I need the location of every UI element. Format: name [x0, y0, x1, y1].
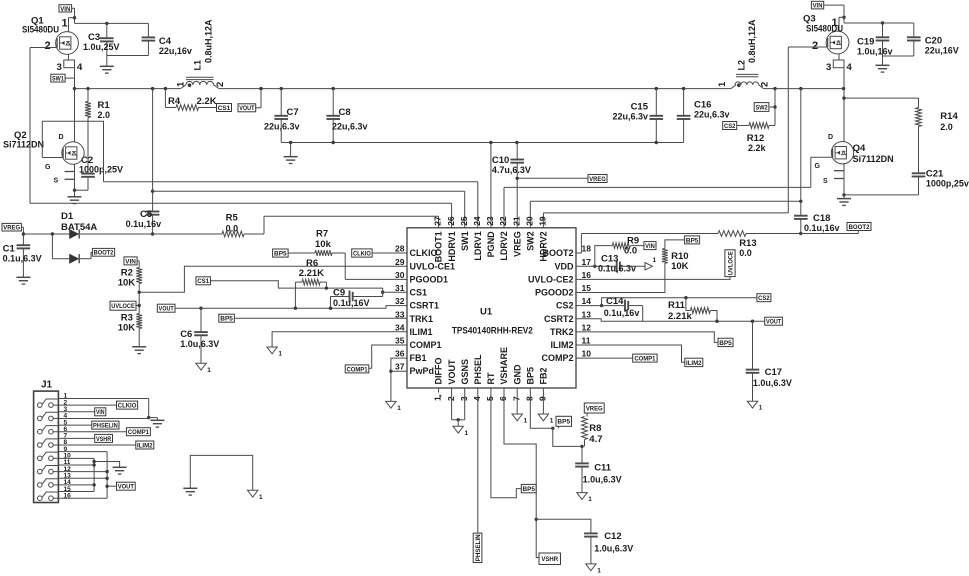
svg-text:26: 26: [446, 216, 456, 226]
svg-text:PHSELIN: PHSELIN: [93, 423, 118, 430]
svg-text:22: 22: [498, 216, 508, 226]
svg-text:0.8uH,12A: 0.8uH,12A: [747, 19, 757, 63]
svg-text:1: 1: [588, 496, 592, 503]
svg-text:GSNS: GSNS: [460, 359, 470, 385]
svg-text:SW1: SW1: [460, 231, 470, 251]
svg-text:R7: R7: [316, 229, 328, 240]
svg-text:4: 4: [847, 62, 853, 73]
svg-text:UVLOCE: UVLOCE: [727, 251, 734, 275]
svg-text:1: 1: [832, 17, 838, 29]
svg-text:12: 12: [582, 322, 592, 332]
svg-text:BOOT2: BOOT2: [848, 224, 869, 231]
svg-text:ILIM1: ILIM1: [410, 327, 433, 337]
svg-text:CS2: CS2: [556, 301, 574, 311]
svg-text:20: 20: [525, 216, 535, 226]
svg-text:VREG: VREG: [3, 225, 20, 232]
svg-text:3: 3: [459, 396, 469, 401]
svg-text:35: 35: [395, 336, 405, 346]
svg-text:UVLO-CE1: UVLO-CE1: [410, 261, 456, 271]
svg-text:22u,16V: 22u,16V: [925, 46, 959, 56]
svg-text:16: 16: [582, 270, 592, 280]
svg-text:22u,6.3v: 22u,6.3v: [264, 122, 300, 132]
svg-text:32: 32: [395, 296, 405, 306]
svg-text:1: 1: [176, 81, 187, 87]
svg-text:22u,16v: 22u,16v: [159, 46, 192, 56]
svg-text:0.0: 0.0: [739, 248, 752, 258]
svg-text:BOOT2: BOOT2: [94, 250, 114, 257]
svg-text:2.0: 2.0: [940, 122, 953, 132]
svg-text:PGOOD1: PGOOD1: [410, 274, 449, 284]
svg-text:1.0u,6.3V: 1.0u,6.3V: [180, 339, 219, 349]
svg-text:0.1u,6.3v: 0.1u,6.3v: [598, 264, 636, 274]
svg-text:BOOT1: BOOT1: [434, 231, 444, 262]
svg-text:9: 9: [538, 396, 548, 401]
svg-text:21: 21: [511, 216, 521, 226]
svg-text:L2: L2: [737, 60, 747, 71]
svg-text:VSHARE: VSHARE: [499, 347, 509, 385]
svg-text:28: 28: [395, 244, 405, 254]
svg-text:SI5480DU: SI5480DU: [22, 25, 59, 35]
svg-text:10: 10: [582, 349, 592, 359]
svg-text:2: 2: [760, 82, 771, 87]
svg-text:1.0u,6.3V: 1.0u,6.3V: [753, 378, 792, 388]
svg-text:1.0u,25V: 1.0u,25V: [83, 42, 120, 52]
svg-text:GND: GND: [512, 364, 522, 385]
svg-text:15: 15: [582, 283, 592, 293]
svg-text:Si7112DN: Si7112DN: [3, 140, 44, 150]
svg-text:4.7: 4.7: [589, 434, 602, 445]
svg-text:2.21k: 2.21k: [668, 311, 692, 322]
svg-text:BP5: BP5: [719, 340, 732, 347]
svg-text:ILIM2: ILIM2: [550, 340, 573, 350]
svg-text:1: 1: [397, 405, 401, 412]
svg-text:R5: R5: [226, 213, 239, 224]
svg-text:0.1u,16V: 0.1u,16V: [333, 298, 370, 308]
svg-text:RT: RT: [486, 372, 496, 384]
svg-text:7: 7: [511, 396, 521, 401]
svg-text:0.1u,6.3V: 0.1u,6.3V: [3, 254, 42, 264]
svg-text:0.0: 0.0: [226, 224, 239, 234]
svg-text:CSRT1: CSRT1: [410, 301, 440, 311]
svg-text:FB2: FB2: [539, 367, 549, 384]
svg-text:C14: C14: [606, 296, 624, 307]
svg-text:UVLOCE: UVLOCE: [111, 303, 135, 310]
svg-text:1: 1: [259, 494, 263, 501]
svg-text:C9: C9: [333, 288, 345, 299]
svg-text:CS1: CS1: [218, 105, 231, 112]
svg-text:1.0u,16v: 1.0u,16v: [857, 47, 893, 57]
svg-text:R14: R14: [940, 111, 958, 122]
svg-text:BP5: BP5: [220, 316, 233, 323]
svg-text:19: 19: [538, 216, 548, 226]
svg-text:0.1u,16v: 0.1u,16v: [604, 308, 640, 318]
svg-text:Q4: Q4: [853, 143, 866, 154]
svg-text:COMP1: COMP1: [634, 356, 655, 363]
svg-text:22u,6.3v: 22u,6.3v: [332, 122, 368, 132]
svg-text:CLKIO: CLKIO: [353, 250, 371, 257]
svg-text:D1: D1: [61, 211, 74, 222]
svg-text:G: G: [815, 163, 821, 170]
svg-text:LDRV2: LDRV2: [499, 231, 509, 260]
svg-text:1: 1: [278, 351, 282, 358]
svg-text:4: 4: [472, 396, 482, 401]
svg-text:2.21K: 2.21K: [299, 268, 324, 279]
svg-text:HDRV1: HDRV1: [447, 231, 457, 261]
svg-text:L1: L1: [193, 60, 203, 71]
svg-text:SW2: SW2: [526, 231, 536, 251]
svg-text:C7: C7: [287, 107, 299, 118]
svg-text:COMP1: COMP1: [346, 366, 367, 373]
svg-text:1: 1: [207, 367, 211, 374]
svg-text:C8: C8: [339, 107, 351, 118]
svg-text:D: D: [59, 134, 64, 141]
svg-text:DIFFO: DIFFO: [434, 358, 444, 385]
svg-text:1: 1: [550, 418, 554, 425]
svg-text:3: 3: [57, 62, 62, 73]
svg-text:BP5: BP5: [557, 419, 570, 426]
svg-text:J1: J1: [41, 380, 53, 391]
svg-text:C17: C17: [765, 367, 782, 378]
svg-text:LDRV1: LDRV1: [473, 231, 483, 260]
svg-text:31: 31: [395, 283, 405, 293]
svg-text:17: 17: [582, 257, 592, 267]
svg-text:PGOOD2: PGOOD2: [535, 288, 574, 298]
svg-text:10K: 10K: [671, 261, 689, 272]
svg-text:0.1u,16v: 0.1u,16v: [126, 219, 162, 229]
svg-text:HDRV2: HDRV2: [539, 231, 549, 261]
svg-text:BAT54A: BAT54A: [61, 222, 97, 233]
svg-text:0.1u,16v: 0.1u,16v: [804, 223, 840, 233]
svg-text:BP5: BP5: [523, 486, 536, 493]
svg-text:1: 1: [653, 257, 657, 264]
svg-text:2: 2: [215, 82, 226, 87]
svg-text:0.0: 0.0: [624, 246, 637, 257]
svg-text:SW1: SW1: [52, 76, 64, 83]
svg-text:29: 29: [395, 257, 405, 267]
svg-text:3: 3: [826, 62, 831, 73]
svg-text:ILIM2: ILIM2: [686, 360, 702, 367]
svg-text:SW2: SW2: [755, 104, 767, 111]
svg-text:30: 30: [395, 270, 405, 280]
svg-text:1: 1: [524, 418, 528, 425]
svg-text:14: 14: [582, 296, 592, 306]
svg-text:FB1: FB1: [410, 353, 427, 363]
svg-text:VREG: VREG: [512, 231, 522, 257]
svg-text:VOUT: VOUT: [447, 359, 457, 385]
svg-text:BP5: BP5: [274, 250, 287, 257]
svg-text:4.7u,6.3V: 4.7u,6.3V: [492, 165, 531, 175]
svg-text:VSHR: VSHR: [96, 436, 111, 443]
svg-text:23: 23: [485, 216, 495, 226]
svg-text:VIN: VIN: [96, 409, 105, 416]
svg-text:R4: R4: [168, 96, 181, 107]
svg-text:2: 2: [446, 396, 456, 401]
svg-text:CS1: CS1: [410, 288, 428, 298]
svg-text:PwPd: PwPd: [410, 366, 435, 376]
svg-text:S: S: [54, 178, 59, 185]
svg-text:1000p,25v: 1000p,25v: [926, 179, 969, 189]
svg-text:18: 18: [582, 244, 592, 254]
svg-text:VIN: VIN: [645, 243, 655, 250]
svg-text:R11: R11: [668, 300, 686, 311]
svg-text:VOUT: VOUT: [239, 105, 255, 112]
svg-text:6: 6: [498, 396, 508, 401]
svg-text:1: 1: [62, 18, 68, 30]
svg-text:1000p,25V: 1000p,25V: [79, 165, 123, 175]
svg-text:R8: R8: [589, 423, 601, 434]
svg-text:CLKIO: CLKIO: [118, 403, 137, 410]
svg-text:2: 2: [812, 40, 818, 52]
svg-text:TPS40140RHH-REV2: TPS40140RHH-REV2: [452, 326, 533, 336]
svg-text:PHSELIN: PHSELIN: [475, 534, 482, 561]
svg-text:1: 1: [717, 81, 728, 87]
svg-text:2.2k: 2.2k: [748, 143, 767, 153]
svg-text:VIN: VIN: [60, 6, 70, 13]
svg-text:VIN: VIN: [813, 3, 823, 10]
svg-text:PGND: PGND: [486, 231, 496, 258]
svg-text:ILIM2: ILIM2: [137, 442, 153, 449]
svg-text:27: 27: [433, 216, 443, 226]
svg-text:COMP2: COMP2: [541, 353, 573, 363]
svg-text:VOUT: VOUT: [766, 319, 782, 326]
svg-text:VOUT: VOUT: [118, 484, 135, 491]
svg-text:C11: C11: [594, 463, 612, 474]
svg-text:COMP1: COMP1: [128, 429, 149, 436]
svg-text:UVLO-CE2: UVLO-CE2: [528, 274, 574, 284]
svg-text:VOUT: VOUT: [159, 306, 175, 313]
svg-text:22u,6.3v: 22u,6.3v: [694, 110, 730, 120]
svg-text:22u,6.3v: 22u,6.3v: [612, 112, 648, 122]
svg-text:TRK2: TRK2: [550, 327, 574, 337]
svg-text:2.2K: 2.2K: [197, 96, 217, 107]
svg-text:CS1: CS1: [197, 278, 209, 285]
svg-text:13: 13: [582, 309, 592, 319]
svg-text:BP5: BP5: [686, 237, 699, 244]
svg-text:CS2: CS2: [724, 123, 736, 130]
svg-text:10K: 10K: [118, 323, 136, 334]
svg-text:VIN: VIN: [125, 258, 136, 265]
svg-text:10k: 10k: [315, 239, 332, 250]
svg-text:1: 1: [759, 405, 763, 412]
svg-text:10K: 10K: [118, 278, 136, 289]
svg-text:1.0u,6.3V: 1.0u,6.3V: [594, 544, 633, 554]
svg-text:33: 33: [395, 309, 405, 319]
svg-text:VSHR: VSHR: [541, 556, 558, 563]
svg-text:BP5: BP5: [526, 367, 536, 385]
svg-text:2.0: 2.0: [98, 110, 111, 120]
svg-text:1: 1: [597, 567, 601, 574]
svg-text:5: 5: [485, 396, 495, 401]
svg-text:0.8uH,12A: 0.8uH,12A: [204, 19, 214, 63]
svg-text:CSRT2: CSRT2: [544, 314, 574, 324]
svg-text:C12: C12: [604, 531, 621, 542]
svg-text:D: D: [828, 134, 833, 141]
svg-text:VREG: VREG: [589, 176, 606, 183]
svg-text:CS2: CS2: [758, 295, 770, 302]
svg-text:1: 1: [465, 430, 469, 437]
svg-text:2: 2: [45, 40, 51, 52]
svg-text:11: 11: [582, 336, 591, 346]
svg-text:34: 34: [395, 322, 405, 332]
svg-text:36: 36: [395, 349, 405, 359]
svg-text:8: 8: [525, 396, 535, 401]
svg-text:S: S: [823, 178, 828, 185]
svg-text:25: 25: [459, 216, 469, 226]
svg-text:1.0u,6.3V: 1.0u,6.3V: [583, 475, 622, 485]
svg-text:G: G: [45, 164, 51, 171]
svg-text:TRK1: TRK1: [410, 314, 434, 324]
svg-text:24: 24: [472, 216, 482, 226]
svg-text:37: 37: [395, 362, 405, 372]
svg-text:VDD: VDD: [554, 261, 574, 271]
svg-text:4: 4: [77, 62, 83, 73]
svg-text:U1: U1: [480, 307, 493, 318]
svg-text:Si7112DN: Si7112DN: [853, 154, 894, 164]
svg-text:COMP1: COMP1: [410, 340, 442, 350]
svg-text:PHSEL: PHSEL: [473, 354, 483, 385]
svg-text:VREG: VREG: [586, 405, 603, 412]
